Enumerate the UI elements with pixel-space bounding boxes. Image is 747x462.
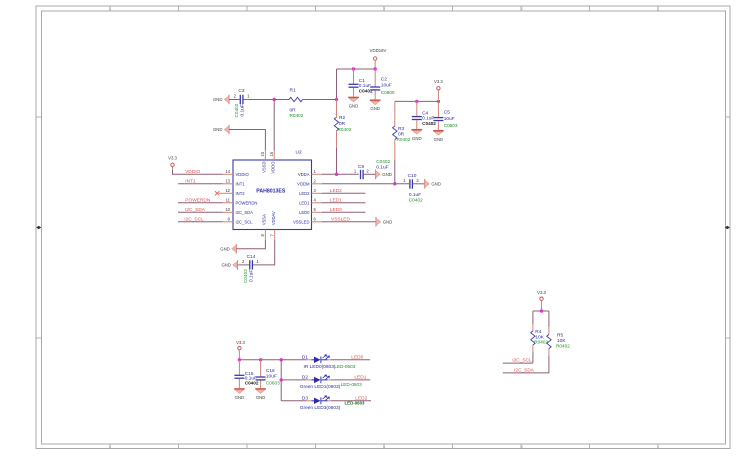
svg-text:GND: GND xyxy=(382,172,392,177)
svg-text:D2: D2 xyxy=(302,374,308,380)
svg-text:C2: C2 xyxy=(381,76,387,82)
svg-text:GND: GND xyxy=(235,395,245,400)
capacitor C1 xyxy=(349,69,374,97)
svg-text:1: 1 xyxy=(657,445,659,449)
svg-text:LED2: LED2 xyxy=(355,395,367,401)
svg-text:12: 12 xyxy=(225,188,230,193)
capacitor C15 xyxy=(234,360,259,388)
svg-text:VDDIO: VDDIO xyxy=(185,169,200,175)
resistor R2 xyxy=(334,100,351,149)
wire LED anode column xyxy=(280,360,282,401)
junction at C1 rail xyxy=(352,67,355,70)
svg-text:R0402: R0402 xyxy=(338,127,352,132)
wire VDDIO net xyxy=(173,170,223,174)
power flag V3.3 LED block xyxy=(236,340,245,360)
wire VDD18V rail xyxy=(337,68,376,70)
svg-text:LED1: LED1 xyxy=(330,197,342,203)
LED D3 xyxy=(281,395,371,411)
power flag V3.3 left xyxy=(168,156,177,171)
svg-text:GND: GND xyxy=(213,97,223,102)
svg-text:4: 4 xyxy=(109,445,111,449)
svg-text:C10: C10 xyxy=(408,173,417,179)
svg-text:4: 4 xyxy=(109,7,111,11)
frame side quarter ticks xyxy=(36,117,730,338)
svg-text:R4: R4 xyxy=(535,329,541,335)
ground arrow at VSSD xyxy=(213,125,229,135)
wire pullup rail xyxy=(533,310,549,312)
svg-text:POWERDN: POWERDN xyxy=(236,200,258,205)
wire R2 to VDDA junction xyxy=(336,148,338,174)
wire VDDAV to C14 xyxy=(253,240,275,265)
frame right mid diamond xyxy=(725,226,730,230)
svg-text:LED2: LED2 xyxy=(330,188,342,194)
wire R1 to VDD18V column xyxy=(303,99,337,101)
capacitor C10 xyxy=(403,173,424,202)
chip left pin numbers xyxy=(225,169,230,222)
chip left pin names xyxy=(236,172,258,225)
svg-text:10uF: 10uF xyxy=(266,373,277,379)
svg-text:INT2: INT2 xyxy=(236,191,246,196)
resistor R1 xyxy=(289,88,304,119)
resistor R4 xyxy=(531,311,549,363)
ground under C15 xyxy=(234,389,245,400)
svg-text:C0402: C0402 xyxy=(359,88,373,93)
svg-text:1: 1 xyxy=(657,7,659,11)
wire LED rail xyxy=(239,359,281,361)
wire LED2 net xyxy=(322,192,366,194)
wire LED0 net xyxy=(322,211,366,213)
svg-text:R5: R5 xyxy=(557,333,563,339)
svg-text:INT1: INT1 xyxy=(185,178,196,184)
svg-text:LED0: LED0 xyxy=(351,354,363,360)
svg-text:R2: R2 xyxy=(339,115,345,121)
wire I2C_SDA net xyxy=(178,211,223,213)
svg-text:10uF: 10uF xyxy=(444,116,455,122)
svg-text:VSSA: VSSA xyxy=(262,214,267,225)
wire VDDO column xyxy=(273,100,275,151)
svg-text:C9: C9 xyxy=(358,164,364,170)
frame top zone ticks xyxy=(110,6,658,11)
svg-text:10: 10 xyxy=(225,207,230,212)
svg-text:V3.3: V3.3 xyxy=(236,340,245,345)
svg-text:LED1: LED1 xyxy=(354,374,366,380)
svg-text:VDDAV: VDDAV xyxy=(271,211,276,225)
ground under C16 xyxy=(255,389,266,400)
svg-text:C5: C5 xyxy=(444,110,450,116)
wire C3 to R1 xyxy=(244,99,290,101)
svg-text:3: 3 xyxy=(383,7,385,11)
LED D2 xyxy=(281,374,370,390)
svg-text:I2C_SDA: I2C_SDA xyxy=(185,207,206,213)
svg-text:VDD18V: VDD18V xyxy=(370,48,387,53)
svg-text:VSSD: VSSD xyxy=(262,162,267,173)
ground arrow at VSSLED xyxy=(376,217,392,227)
svg-text:C0402: C0402 xyxy=(409,197,423,202)
svg-text:13: 13 xyxy=(225,178,230,183)
capacitor C3 xyxy=(229,88,250,118)
pin 7 VDDAV xyxy=(269,211,276,240)
svg-text:2: 2 xyxy=(521,7,523,11)
capacitor C5 xyxy=(433,101,458,129)
svg-text:IR LED0(0603): IR LED0(0603) xyxy=(304,364,336,370)
svg-text:I2C_SCL: I2C_SCL xyxy=(512,358,532,364)
ground under C1 xyxy=(348,97,359,108)
svg-text:GND: GND xyxy=(434,137,444,142)
svg-text:15: 15 xyxy=(260,151,265,156)
chip left pin stubs xyxy=(219,174,234,222)
svg-text:R0402: R0402 xyxy=(556,343,570,348)
svg-text:LED-0603: LED-0603 xyxy=(341,382,363,387)
svg-text:16: 16 xyxy=(269,151,274,156)
wire POWERDN net xyxy=(178,202,223,204)
svg-text:VDDO: VDDO xyxy=(271,161,276,174)
pin 16 VDDO xyxy=(269,150,276,174)
frame left mid diamond xyxy=(36,226,41,230)
svg-text:11: 11 xyxy=(226,197,231,202)
svg-text:PAH8013ES: PAH8013ES xyxy=(256,188,286,194)
ground arrow at C10 xyxy=(425,179,441,189)
svg-text:LED0: LED0 xyxy=(299,210,310,215)
svg-text:C0603: C0603 xyxy=(266,381,280,386)
chip right pin names xyxy=(293,172,310,225)
svg-text:R0402: R0402 xyxy=(397,137,411,142)
junction VDDM xyxy=(393,182,396,185)
svg-text:Green LED1(0603): Green LED1(0603) xyxy=(300,384,341,390)
wire INT1 net xyxy=(178,183,223,185)
junction C16 rail xyxy=(259,358,262,361)
svg-text:2: 2 xyxy=(521,445,523,449)
svg-text:C3: C3 xyxy=(238,88,244,94)
ground under C4 xyxy=(412,130,423,141)
svg-text:GND: GND xyxy=(383,220,393,225)
svg-text:I2C_SCL: I2C_SCL xyxy=(184,216,204,222)
svg-text:R3: R3 xyxy=(398,126,404,132)
wire I2C_SDA pullup xyxy=(503,372,549,374)
svg-text:0.1uF: 0.1uF xyxy=(249,270,255,282)
svg-text:VDDA: VDDA xyxy=(298,172,310,177)
svg-text:LED1: LED1 xyxy=(299,200,310,205)
svg-text:C0402: C0402 xyxy=(245,380,259,385)
resistor R3 xyxy=(393,101,411,183)
wire VSSLED net xyxy=(322,221,376,223)
svg-text:GND: GND xyxy=(256,395,266,400)
svg-text:VDDM: VDDM xyxy=(297,181,310,186)
svg-text:V3.3: V3.3 xyxy=(168,156,177,161)
svg-text:I2C_SDA: I2C_SDA xyxy=(236,210,254,215)
svg-text:0.1uF: 0.1uF xyxy=(376,165,388,171)
frame zone digits xyxy=(109,7,659,449)
svg-text:D1: D1 xyxy=(302,354,308,360)
junction VDDO column xyxy=(273,98,276,101)
junction at C2 rail xyxy=(374,67,377,70)
ground arrow at VSSA xyxy=(220,244,236,254)
junction D2 row xyxy=(280,378,283,381)
svg-text:10uF: 10uF xyxy=(381,83,392,89)
svg-text:VSSLED: VSSLED xyxy=(331,216,350,222)
svg-text:LED-0603: LED-0603 xyxy=(334,364,356,369)
wire I2C_SCL net xyxy=(178,221,223,223)
svg-text:GND: GND xyxy=(412,136,422,141)
svg-text:Green LED3(0603): Green LED3(0603) xyxy=(300,405,341,411)
svg-text:R1: R1 xyxy=(290,88,296,94)
svg-text:R0402: R0402 xyxy=(534,340,548,345)
svg-text:GND: GND xyxy=(220,247,230,252)
frame bottom zone ticks xyxy=(110,444,658,449)
power flag V3.3 pullups xyxy=(537,290,546,311)
junction D1 column xyxy=(280,358,283,361)
LED D1 xyxy=(281,354,370,370)
junction C5 rail xyxy=(437,100,440,103)
wire LED1 net xyxy=(322,202,366,204)
svg-text:I2C_SDA: I2C_SDA xyxy=(514,367,535,373)
capacitor C16 xyxy=(256,360,281,388)
svg-text:GND: GND xyxy=(213,127,223,132)
wire I2C_SCL pullup xyxy=(503,362,533,364)
junction C4 rail xyxy=(415,100,418,103)
svg-text:LED-0603: LED-0603 xyxy=(344,401,365,406)
svg-text:0.1uF: 0.1uF xyxy=(239,104,245,116)
svg-text:INT1: INT1 xyxy=(236,181,246,186)
wire VDDM pin2 row xyxy=(322,183,409,185)
ground under C5 xyxy=(433,131,444,142)
power flag V3.3 mid xyxy=(434,79,443,101)
svg-text:V3.3: V3.3 xyxy=(434,79,443,84)
wire VSSA ground run xyxy=(236,240,265,249)
junction C15 rail xyxy=(238,358,241,361)
pin 15 VSSD xyxy=(260,150,267,173)
svg-text:POWERDN: POWERDN xyxy=(185,197,211,203)
chip right pin numbers xyxy=(314,169,317,222)
svg-text:C0402: C0402 xyxy=(243,269,248,283)
wire V3.3 rail right xyxy=(395,100,439,102)
chip right pin stubs xyxy=(312,174,323,222)
wire VDDA pin1 row xyxy=(322,173,359,175)
capacitor C14 xyxy=(221,254,259,283)
svg-text:C16: C16 xyxy=(266,368,275,374)
svg-text:C0402: C0402 xyxy=(234,103,239,117)
svg-text:GND: GND xyxy=(431,182,441,187)
svg-text:VSSLED: VSSLED xyxy=(293,219,310,224)
svg-text:R0402: R0402 xyxy=(290,113,304,118)
svg-text:U2: U2 xyxy=(296,150,302,156)
capacitor C4 xyxy=(412,101,437,128)
svg-text:D3: D3 xyxy=(302,395,308,401)
svg-text:GND: GND xyxy=(349,103,359,108)
svg-text:C14: C14 xyxy=(247,254,256,260)
svg-text:3: 3 xyxy=(383,445,385,449)
svg-text:C0805: C0805 xyxy=(381,90,395,95)
svg-text:LED2: LED2 xyxy=(299,191,310,196)
svg-text:GND: GND xyxy=(370,106,380,111)
junction VDDA xyxy=(335,173,338,176)
svg-text:V3.3: V3.3 xyxy=(537,290,546,295)
pin 8 VSSA xyxy=(260,214,267,240)
wire VDD18V rail drop to R2 xyxy=(336,69,338,100)
ground under C2 xyxy=(370,100,381,111)
power flag VDD18V xyxy=(370,48,387,69)
junction pullup rail xyxy=(540,309,543,312)
svg-text:VDDIO: VDDIO xyxy=(236,172,250,177)
junction R1 right xyxy=(335,98,338,101)
capacitor C2 xyxy=(370,69,395,99)
svg-text:I2C_SCL: I2C_SCL xyxy=(236,219,254,224)
no-connect X on pin 12 xyxy=(215,191,219,195)
resistor R5 xyxy=(547,311,571,373)
ground arrow at C3 xyxy=(213,95,229,105)
op-amp U2 chip body PAH8013ES xyxy=(233,150,312,230)
svg-text:LED0: LED0 xyxy=(330,207,342,213)
ground arrow at C9 xyxy=(376,170,392,180)
capacitor C9 xyxy=(354,159,391,179)
svg-text:C0603: C0603 xyxy=(444,123,458,128)
wire VSSD ground run xyxy=(229,130,265,151)
svg-text:14: 14 xyxy=(225,169,230,174)
svg-text:GND: GND xyxy=(221,263,231,268)
svg-text:C1: C1 xyxy=(359,78,365,84)
svg-text:C0402: C0402 xyxy=(422,121,436,126)
svg-text:C0402: C0402 xyxy=(376,159,390,164)
